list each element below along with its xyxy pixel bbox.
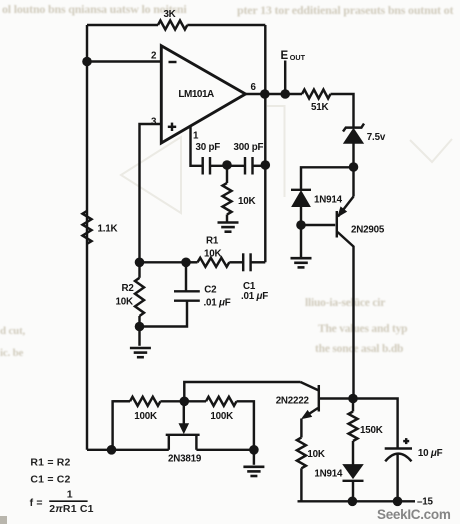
diode 1N914 (middle) cathode bar <box>291 189 311 191</box>
wire: op-amp pin1 comp stub <box>191 126 203 166</box>
wire: bottom-left wire from rail to FET source <box>87 449 169 451</box>
wire: diode to bottom rail <box>352 481 354 501</box>
svg-text:3K: 3K <box>163 9 175 20</box>
transistor Q2 base slant <box>301 382 319 391</box>
svg-text:The values and typ: The values and typ <box>318 323 407 335</box>
op-amp U1 LM101A triangle <box>161 46 245 143</box>
wire: Eout stub <box>284 61 286 95</box>
ground symbol (comp 10K) <box>218 221 239 224</box>
node: C2/R1 junction <box>181 258 191 268</box>
zener diode D1 anode triangle <box>344 129 363 144</box>
page bleed-through ghost text top <box>0 2 453 359</box>
svg-text:7.5v: 7.5v <box>367 132 386 143</box>
svg-text:the sonce asal b.db: the sonce asal b.db <box>315 343 403 355</box>
resistor 100K (left) <box>130 397 160 406</box>
svg-text:100K: 100K <box>210 411 233 422</box>
wire: 10K to bottom rail <box>300 468 302 501</box>
diode 1N914 (bottom) cathode bar <box>343 480 364 482</box>
transistor Q1 2N2905 base bar <box>336 211 338 238</box>
wire: 100K right end down <box>237 401 254 450</box>
svg-text:10K: 10K <box>204 248 221 259</box>
svg-text:–15: –15 <box>417 497 433 508</box>
svg-text:6: 6 <box>251 82 257 93</box>
svg-text:R2: R2 <box>122 283 135 294</box>
JFET Q3 2N3819 gate with arrow <box>183 401 185 425</box>
node: left bottom junction <box>107 445 117 455</box>
wire: base node to 2N2905 base bar <box>301 224 335 226</box>
plus sign (non-inverting input) <box>168 126 176 128</box>
resistor 3K (feedback) <box>158 21 187 30</box>
transistor Q1 emitter (arrow into bar, PNP) <box>338 197 354 217</box>
svg-text:C1: C1 <box>243 281 256 292</box>
resistor 51K <box>302 90 331 99</box>
svg-text:R1: R1 <box>206 236 219 247</box>
plus polarity mark <box>403 440 409 442</box>
svg-text:3: 3 <box>151 117 157 128</box>
svg-text:30 pF: 30 pF <box>196 142 221 153</box>
wire: top feedback wire right of 3K <box>187 24 265 26</box>
JFET source leg <box>168 435 170 450</box>
node: 2N2905 base junction <box>296 220 306 230</box>
svg-text:10K: 10K <box>238 196 255 207</box>
wire: junction left and down to 1N914 <box>301 167 354 190</box>
capacitor C1 .01uF <box>242 253 244 271</box>
diode 1N914 (bottom) anode triangle pointing down <box>343 465 363 479</box>
wire: mid node to 300pF, 300pF to right rail <box>227 165 245 167</box>
svg-text:C1 = C2: C1 = C2 <box>30 473 70 485</box>
resistor R2 10K <box>138 262 140 278</box>
resistor 100K (right) <box>206 397 237 406</box>
capacitor 30 pF <box>201 157 203 175</box>
svg-text:1.1K: 1.1K <box>98 224 118 235</box>
wire: R2 bottom to C2 bottom <box>140 301 188 327</box>
svg-text:2N3819: 2N3819 <box>168 454 202 465</box>
wire: op-amp pin 3 to divider <box>140 124 162 262</box>
resistor 1.1K on left rail <box>83 211 92 244</box>
svg-text:E: E <box>281 50 289 62</box>
svg-text:.01 μF: .01 μF <box>204 297 231 308</box>
ground symbol (FET drain) <box>253 450 255 465</box>
svg-text:10K: 10K <box>307 449 324 460</box>
node: right rail at 300pF <box>261 160 271 170</box>
svg-text:f =: f = <box>30 497 43 509</box>
svg-text:.01 μF: .01 μF <box>241 291 268 302</box>
svg-text:300 pF: 300 pF <box>234 142 264 153</box>
node: comp caps mid junction <box>222 160 232 170</box>
transistor Q1 collector <box>338 232 354 399</box>
wire: right feedback rail (top wire down to C1) <box>264 25 266 262</box>
svg-text:1N914: 1N914 <box>314 195 343 206</box>
svg-text:100K: 100K <box>134 411 157 422</box>
wire: 30pF to mid node <box>210 165 227 167</box>
wire: 51K to zener <box>331 94 354 127</box>
svg-text:C2: C2 <box>204 284 217 295</box>
ground symbol (below 2N2905 base node) <box>300 225 302 258</box>
resistor 10K (comp, to ground) <box>223 183 232 215</box>
transistor Q2 2N2222 base bar <box>318 385 320 412</box>
ground symbol (R2) <box>138 327 140 346</box>
wire: left feedback rail <box>86 25 88 450</box>
svg-text:1: 1 <box>67 489 73 501</box>
svg-text:10K: 10K <box>116 297 133 308</box>
wire: bottom negative supply rail <box>298 500 416 502</box>
svg-text:pter 13 tor edditienal praseut: pter 13 tor edditienal praseuts bns outn… <box>237 3 453 17</box>
capacitor 300 pF <box>244 157 246 175</box>
node: zener / diode / 2N2905 emitter junction <box>349 162 359 172</box>
svg-text:2N2905: 2N2905 <box>351 225 385 236</box>
wire: op-amp output to 51K <box>246 93 303 95</box>
svg-text:2πR1 C1: 2πR1 C1 <box>49 503 93 515</box>
transistor Q2 emitter with arrow (NPN) <box>304 408 319 418</box>
node: Eout stub junction <box>280 89 290 99</box>
wire: top feedback wire left of 3K <box>87 24 158 26</box>
JFET channel bar <box>166 434 200 436</box>
svg-text:lliuo-ia-selūce cir: lliuo-ia-selūce cir <box>305 297 385 309</box>
zener diode D1 7.5v cathode bar <box>343 124 364 132</box>
wire: between 100Ks <box>160 400 206 402</box>
resistor 10K (emitter) <box>297 438 306 469</box>
capacitor 10uF curved plate <box>385 454 411 462</box>
svg-text:1: 1 <box>193 131 199 142</box>
svg-text:2N2222: 2N2222 <box>276 396 310 407</box>
diode 1N914 (middle) anode triangle pointing up <box>292 191 310 207</box>
wire: mid node down to 10K <box>226 166 228 183</box>
wire: to op-amp pin 2 <box>87 60 161 62</box>
wire: divider output up and to 2N2222 base <box>184 382 300 401</box>
minus sign (inverting input) <box>169 61 177 63</box>
node: inverting input junction on left rail <box>82 57 92 67</box>
wire: C1 to right rail <box>251 261 266 263</box>
wire: FET drain to ground node <box>196 449 254 451</box>
wire: divider horizontal <box>113 400 130 402</box>
node: R2 bottom junction <box>135 322 145 332</box>
wire: zener to junction <box>352 143 354 167</box>
wire: junction to C2/R1 node <box>140 261 187 263</box>
svg-text:LM101A: LM101A <box>178 89 214 100</box>
svg-text:OUT: OUT <box>290 53 306 62</box>
ghost op-amp outline (bleed) <box>121 106 452 213</box>
wire: 10K to ground <box>226 215 228 223</box>
svg-text:2: 2 <box>151 51 157 62</box>
node: output / right rail junction <box>260 89 270 99</box>
node: FET drain / ground junction <box>249 445 259 455</box>
wire: junction to 10uF cap <box>353 399 398 449</box>
resistor 150K <box>352 399 354 412</box>
svg-text:150K: 150K <box>360 425 383 436</box>
capacitor C2 .01uF plates <box>185 262 187 291</box>
svg-text:51K: 51K <box>311 102 328 113</box>
svg-text:10 μF: 10 μF <box>418 448 443 459</box>
svg-text:SeekIC.com: SeekIC.com <box>377 507 451 522</box>
JFET drain leg <box>195 435 197 450</box>
svg-text:d cut,: d cut, <box>0 325 26 337</box>
transistor Q2 collector wire to node <box>319 397 353 399</box>
wire: diode to base node <box>300 206 302 225</box>
node: R2/C2 top-left junction <box>135 258 145 268</box>
wire: cap to bottom rail <box>396 454 398 502</box>
capacitor 10uF electrolytic top plate <box>385 447 412 449</box>
node: rail/cap junction <box>393 497 403 507</box>
node: collector / 150K / cap junction <box>348 394 358 404</box>
resistor R1 10K <box>186 261 198 263</box>
node: rail/diode junction <box>348 497 358 507</box>
svg-text:ic. be: ic. be <box>0 347 24 359</box>
svg-text:1N914: 1N914 <box>314 469 343 480</box>
node: divider mid junction <box>180 397 190 407</box>
scan smudge bottom-left corner <box>0 516 7 524</box>
svg-text:R1 = R2: R1 = R2 <box>30 456 70 468</box>
svg-text:ol loutno bns qniansa uatsw lo: ol loutno bns qniansa uatsw lo noitsni <box>2 2 187 16</box>
wire: 100K left end down <box>113 401 130 450</box>
